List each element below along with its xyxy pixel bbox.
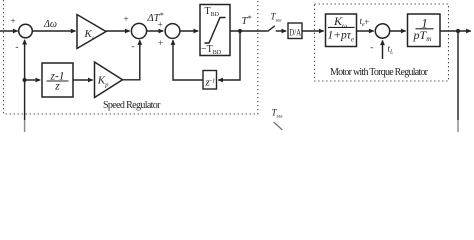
- node feedback tap: [23, 78, 27, 82]
- svg-text:Motor with Torque Regulator: Motor with Torque Regulator: [330, 67, 429, 78]
- block z^-1 delay: [203, 71, 217, 90]
- wire saturation to sampler: [230, 30, 268, 32]
- block D/A: [288, 23, 302, 39]
- summing junction S1: [19, 24, 33, 38]
- summing junction M2: [165, 24, 180, 39]
- wire input reference: [0, 30, 18, 32]
- block Km/(1+p tau): [326, 14, 357, 47]
- wire speed feedback left vertical: [24, 120, 26, 132]
- svg-text:+: +: [158, 38, 163, 48]
- svg-text:D/A: D/A: [289, 27, 301, 37]
- wire sampler to D/A: [276, 30, 286, 32]
- svg-text:+: +: [10, 17, 15, 27]
- block (z-1)/z: [42, 63, 73, 97]
- wire Ki to M1: [106, 30, 130, 32]
- wire tap to (z-1)/z: [25, 79, 41, 81]
- sampler switch bottom: [274, 122, 283, 130]
- svg-text:+: +: [158, 19, 163, 29]
- svg-text:+: +: [364, 17, 369, 27]
- wire M2 to saturation: [180, 30, 198, 32]
- wire M3 to 1/pTm: [390, 30, 406, 32]
- block 1/pTm: [408, 14, 441, 47]
- summing junction M1: [131, 23, 146, 38]
- wire Kp to M1 bottom: [123, 42, 140, 80]
- wire load torque input: [382, 40, 384, 59]
- svg-text:Δω: Δω: [43, 19, 57, 30]
- node output: [456, 29, 460, 33]
- wire speed feedback right vertical: [457, 31, 459, 120]
- wire D/A to Km: [302, 30, 324, 32]
- gain block Ki: [77, 15, 106, 49]
- gain block Kp: [95, 62, 123, 98]
- wire T* node to z-1 delay: [219, 31, 240, 80]
- svg-text:1+pτe: 1+pτe: [328, 30, 355, 44]
- svg-text:Speed Regulator: Speed Regulator: [103, 100, 161, 111]
- svg-text:-: -: [15, 43, 18, 53]
- svg-text:-: -: [370, 43, 373, 53]
- wire z^-1 to M2 bottom: [173, 42, 203, 81]
- sampler switch top: [268, 26, 275, 32]
- wire output speed: [440, 30, 471, 32]
- dashed box Motor with Torque Regulator: [315, 4, 449, 81]
- summing junction M3: [375, 24, 389, 38]
- wire S1 to Ki: [32, 30, 75, 32]
- wire Km to M3: [357, 30, 374, 32]
- svg-text:-: -: [131, 42, 134, 52]
- dashed box Speed Regulator: [4, 0, 258, 114]
- wire (z-1)/z to Kp: [73, 79, 93, 81]
- node T*: [238, 29, 242, 33]
- svg-text:z: z: [54, 79, 60, 93]
- saturation block TBD: [200, 5, 230, 57]
- svg-text:+: +: [123, 14, 128, 24]
- wire M1 to M2: [147, 30, 164, 32]
